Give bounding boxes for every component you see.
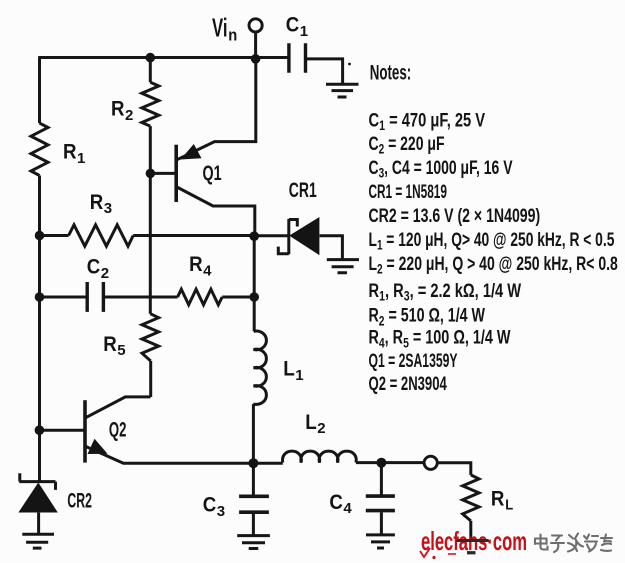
svg-text:4: 4 xyxy=(343,500,352,517)
diode CR2 body xyxy=(18,483,57,513)
resistor RL xyxy=(463,475,479,521)
resistor R5 xyxy=(142,314,159,361)
wire C3 leads xyxy=(252,463,255,535)
node (Vin) xyxy=(251,54,261,64)
svg-text:R1, R3, = 2.2 kΩ, 1/4 W: R1, R3, = 2.2 kΩ, 1/4 W xyxy=(369,280,522,305)
svg-text:R: R xyxy=(63,141,77,164)
svg-text:Q1 = 2SA1359Y: Q1 = 2SA1359Y xyxy=(369,350,458,372)
svg-text:L1 = 120 μH, Q> 40 @ 250 kHz,: L1 = 120 μH, Q> 40 @ 250 kHz, R < 0.5 xyxy=(369,229,615,254)
ground (C4) xyxy=(366,535,395,548)
node (C4 top) xyxy=(376,458,386,468)
svg-text:2: 2 xyxy=(101,265,109,282)
ground (C1) xyxy=(326,84,359,97)
svg-text:R: R xyxy=(90,191,104,214)
svg-text:3: 3 xyxy=(217,503,225,520)
wire output node to L2 xyxy=(253,462,282,465)
inductor L2 xyxy=(283,451,357,463)
capacitor C3 xyxy=(239,496,269,512)
svg-text:CR1 = 1N5819: CR1 = 1N5819 xyxy=(369,181,447,203)
wire top horizontal rail y=57.5 xyxy=(38,56,288,59)
node (Q1 base) xyxy=(146,169,156,179)
svg-text:4: 4 xyxy=(203,263,212,280)
svg-text:2: 2 xyxy=(317,420,325,437)
svg-text:n: n xyxy=(228,26,237,45)
svg-text:C: C xyxy=(87,256,101,279)
speck near C1 ground xyxy=(348,63,351,66)
inductor L1 xyxy=(253,331,266,404)
wire Q1 collector down to CR1 node xyxy=(177,187,255,236)
svg-text:Q2: Q2 xyxy=(109,419,127,442)
svg-text:Notes:: Notes: xyxy=(370,61,412,84)
wire C2/R4 line y=297 xyxy=(40,296,255,299)
transistor Q1 emitter arrow xyxy=(181,144,202,160)
capacitor C4 xyxy=(366,496,395,511)
svg-text:L: L xyxy=(505,497,513,514)
svg-text:R: R xyxy=(103,333,117,356)
resistor R2 xyxy=(142,82,159,126)
wire CR1 branch xyxy=(254,236,342,260)
svg-text:L: L xyxy=(283,357,295,380)
resistor R1 xyxy=(31,123,48,175)
ground (RL) top lines over watermark xyxy=(457,541,489,553)
svg-text:Q1: Q1 xyxy=(203,162,222,185)
node (CR1) xyxy=(249,231,259,241)
svg-text:5: 5 xyxy=(117,342,125,359)
wire Q1 emitter to Vin node xyxy=(177,59,256,160)
node (output) xyxy=(248,458,258,468)
diode CR1 body xyxy=(289,217,319,255)
svg-text:CR2 = 13.6 V (2 × 1N4099): CR2 = 13.6 V (2 × 1N4099) xyxy=(369,205,541,227)
watermark accent marks xyxy=(420,548,430,557)
terminal Vin xyxy=(249,19,262,32)
capacitor C1 xyxy=(289,43,306,72)
transistor Q1 xyxy=(174,145,178,202)
node (Q2 base) xyxy=(35,425,45,435)
watermark chinese characters xyxy=(535,534,612,553)
svg-text:Q2 = 2N3904: Q2 = 2N3904 xyxy=(369,373,447,395)
svg-text:2: 2 xyxy=(125,107,133,124)
transistor Q2 emitter arrow xyxy=(88,439,108,454)
svg-text:L: L xyxy=(305,411,317,434)
wire C4 leads xyxy=(380,463,383,535)
wire CR1 node down through R4 node to L1 xyxy=(253,236,256,331)
diode CR1 cathode (schottky) xyxy=(278,219,297,254)
svg-text:R: R xyxy=(189,253,203,276)
wire R5 bottom to Q2 collector xyxy=(86,397,151,418)
svg-text:L2 = 220 μH, Q > 40 @ 250 kHz,: L2 = 220 μH, Q > 40 @ 250 kHz, R< 0.8 xyxy=(369,253,618,278)
svg-text:C3, C4 = 1000 μF, 16 V: C3, C4 = 1000 μF, 16 V xyxy=(369,157,513,182)
wire Q2 base xyxy=(39,429,83,432)
svg-text:R2 = 510 Ω, 1/4 W: R2 = 510 Ω, 1/4 W xyxy=(369,305,486,330)
svg-text:R4, R5 = 100 Ω, 1/4 W: R4, R5 = 100 Ω, 1/4 W xyxy=(369,327,511,352)
svg-text:R: R xyxy=(491,487,505,510)
svg-text:CR2: CR2 xyxy=(67,490,92,513)
svg-text:C: C xyxy=(203,493,217,516)
transistor Q2 xyxy=(83,400,87,462)
wire L2 to terminal xyxy=(356,463,471,475)
svg-text:1: 1 xyxy=(300,23,308,40)
ground (CR2) xyxy=(22,534,54,548)
node (R2 top) xyxy=(146,53,156,63)
terminal output xyxy=(424,456,437,469)
node (R4 right) xyxy=(249,292,259,302)
svg-text:1: 1 xyxy=(77,150,85,167)
wire Vin drop to top rail xyxy=(254,33,257,59)
resistor R4 xyxy=(178,289,223,305)
node (C2 left) xyxy=(35,292,45,302)
svg-text:C2 = 220 μF: C2 = 220 μF xyxy=(369,133,445,158)
svg-text:CR1: CR1 xyxy=(289,179,317,202)
wire middle rail x=150.3 (R2 / Q1 base / R5) xyxy=(149,58,152,398)
wire R3 line y=235.5 xyxy=(40,234,255,237)
svg-text:C: C xyxy=(286,14,300,37)
diode CR2 cathode (zener) xyxy=(19,473,55,490)
svg-text:R: R xyxy=(111,98,125,121)
svg-text:C: C xyxy=(329,491,343,514)
ground (RL) xyxy=(457,541,489,553)
capacitor C2 xyxy=(87,282,103,312)
wire L1 bottom to output node xyxy=(252,404,255,463)
wire C1 to ground xyxy=(306,59,343,84)
wire RL bottom lead xyxy=(469,521,472,541)
svg-text:3: 3 xyxy=(104,200,112,217)
node (R3 left) xyxy=(35,231,45,241)
svg-text:1: 1 xyxy=(295,367,303,384)
ground (C3) xyxy=(237,536,270,549)
wire CR2 bottom lead xyxy=(37,513,40,535)
svg-text:C1 = 470 μF, 25 V: C1 = 470 μF, 25 V xyxy=(369,109,486,134)
wire left rail x=39.5 xyxy=(38,58,41,482)
ground (CR1) xyxy=(327,260,359,273)
resistor R3 xyxy=(69,225,134,246)
wire Q2 emitter to output node xyxy=(86,447,254,464)
svg-text:Vi: Vi xyxy=(212,13,228,43)
